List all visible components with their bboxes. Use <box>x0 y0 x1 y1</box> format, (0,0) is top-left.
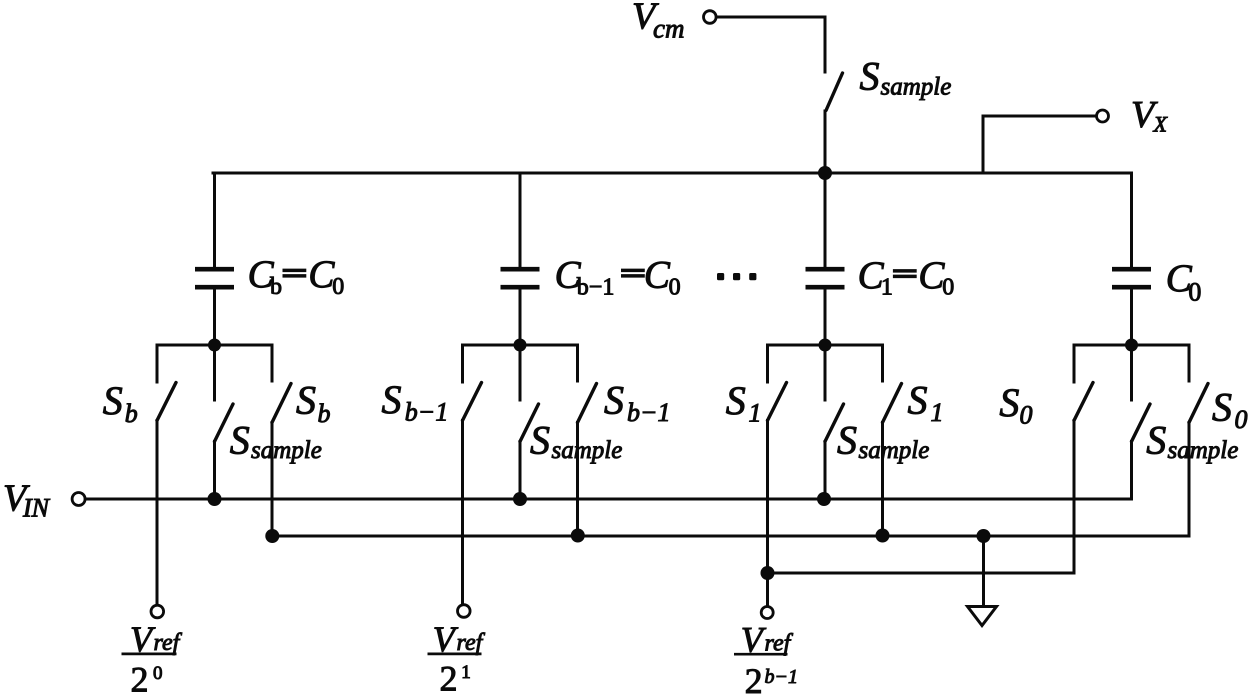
junction Ssample group 1 on VIN rail <box>208 492 222 506</box>
svg-text:1: 1 <box>749 399 762 428</box>
wire switch bar group 3 <box>768 344 883 347</box>
label Vcm <box>632 0 684 44</box>
wire switch bar group 4 <box>1074 344 1189 347</box>
label S0 right <box>1212 385 1248 435</box>
wire right switch group 3 to rail2 <box>881 423 884 537</box>
svg-text:b−1: b−1 <box>765 666 799 688</box>
junction ground tap on rail2 <box>977 529 991 543</box>
label S1 left <box>726 378 762 428</box>
wire switch bar group 1 <box>157 344 272 347</box>
wire capacitor C1 to node <box>213 289 216 345</box>
svg-text:2: 2 <box>745 661 763 699</box>
switch blade left group 4 <box>1074 383 1093 421</box>
label Sb left <box>103 378 138 428</box>
wire switch Ssample group 2 to VIN rail <box>519 442 522 500</box>
node bottom plate group 2 <box>514 339 527 352</box>
svg-text:ref: ref <box>765 631 794 657</box>
terminal Vref/2^1 <box>458 605 471 618</box>
wire rail2 (bit switches) <box>272 535 1189 538</box>
wire Vcm to switch Ssample <box>717 17 826 72</box>
label Vref/2^1 <box>428 619 486 699</box>
svg-text:b−1: b−1 <box>577 275 615 301</box>
svg-text:S: S <box>1212 385 1232 430</box>
label Ssample (top) <box>860 54 952 101</box>
capacitor C2 bottom plate <box>501 285 540 290</box>
switch blade left group 3 <box>768 383 787 421</box>
label C0 <box>1166 257 1202 307</box>
svg-text:0: 0 <box>153 663 163 684</box>
switch blade right group 3 <box>883 384 902 423</box>
capacitor C3 bottom plate <box>806 285 845 290</box>
wire left switch group 1 to Vref terminal <box>156 421 159 605</box>
svg-text:S: S <box>382 377 402 422</box>
wire right switch group 2 to rail2 <box>576 423 579 537</box>
switch blade right group 2 <box>578 384 597 423</box>
svg-text:S: S <box>726 378 746 423</box>
wire top rail to capacitor C4 <box>1130 173 1133 267</box>
svg-text:2: 2 <box>131 660 149 699</box>
svg-text:IN: IN <box>22 494 51 523</box>
label Sb-1 right <box>604 378 671 428</box>
junction group 1 on rail2 <box>265 529 279 543</box>
wire right switch stub group 1 <box>271 345 274 381</box>
svg-text:S: S <box>103 378 123 423</box>
wire Vx stub <box>983 116 1096 173</box>
wire left switch stub group 4 <box>1073 345 1076 382</box>
svg-text:S: S <box>908 378 928 423</box>
wire right switch group 1 to rail2 <box>271 423 274 537</box>
label Ssample group 3 <box>837 418 929 465</box>
svg-text:S: S <box>999 380 1019 425</box>
wire left switch stub group 1 <box>156 345 159 382</box>
capacitor C4 bottom plate <box>1112 285 1151 290</box>
terminal VIN <box>72 493 85 506</box>
svg-text:1: 1 <box>931 398 944 427</box>
wire top plate rail <box>213 172 1132 175</box>
switch Ssample (top) blade <box>826 73 843 111</box>
terminal Vref/2^b-1 <box>761 607 773 619</box>
svg-text:S: S <box>296 378 316 423</box>
wire switch bar group 2 <box>463 344 578 347</box>
label Vref/2^b-1 <box>734 620 798 699</box>
wire middle switch stub group 3 <box>824 345 827 400</box>
capacitor C4 top plate <box>1112 267 1151 272</box>
node bottom plate group 4 <box>1125 339 1138 352</box>
junction Ssample group 3 on VIN rail <box>817 492 831 506</box>
wire top rail to capacitor C3 <box>824 173 827 267</box>
wire left switch stub group 3 <box>766 345 769 382</box>
label Ssample group 2 <box>530 418 622 465</box>
svg-text:0: 0 <box>1235 405 1248 434</box>
switch Ssample blade group 2 <box>520 404 539 442</box>
svg-text:1: 1 <box>461 662 471 683</box>
wire switch Ssample group 3 to VIN rail <box>824 442 827 500</box>
svg-text:0: 0 <box>332 274 344 300</box>
label Cb=C0 <box>248 253 345 300</box>
terminal Vref/2^0 <box>151 605 164 618</box>
svg-text:sample: sample <box>881 74 952 101</box>
svg-text:b−1: b−1 <box>405 398 449 427</box>
svg-text:S: S <box>604 378 624 423</box>
svg-text:S: S <box>837 418 857 463</box>
svg-text:b−1: b−1 <box>627 398 671 427</box>
wire left switch group 2 to Vref terminal <box>461 421 464 605</box>
switch Ssample blade group 1 <box>215 404 234 442</box>
junction group 2 on rail2 <box>571 529 585 543</box>
wire top rail to capacitor C1 <box>213 173 216 267</box>
label Cb-1=C0 <box>555 254 681 301</box>
node bottom plate group 3 <box>819 339 832 352</box>
svg-text:sample: sample <box>859 437 930 464</box>
label Sb-1 left <box>382 377 449 427</box>
svg-text:X: X <box>1153 112 1169 137</box>
wire capacitor C4 to node <box>1130 289 1133 345</box>
capacitor C1 top plate <box>195 267 234 272</box>
junction node on top rail <box>818 166 832 180</box>
ground <box>968 607 997 626</box>
svg-text:0: 0 <box>942 275 954 301</box>
node bottom plate group 1 <box>208 339 221 352</box>
wire middle switch stub group 2 <box>519 345 522 400</box>
svg-text:0: 0 <box>1188 278 1201 307</box>
switch Ssample blade group 3 <box>825 404 844 442</box>
svg-text:S: S <box>860 54 880 99</box>
ellipsis dots <box>717 273 756 280</box>
label Sb right <box>296 378 331 429</box>
switch blade right group 4 <box>1189 384 1208 423</box>
wire capacitor C2 to node <box>519 289 522 345</box>
svg-text:0: 0 <box>669 275 681 301</box>
label Vref/2^0 <box>122 619 183 699</box>
wire switch Ssample group 1 to VIN rail <box>213 442 216 500</box>
label C1=C0 <box>858 254 955 301</box>
wire switch Ssample to top plate node <box>824 111 827 173</box>
junction group 3 on rail3 <box>761 566 775 580</box>
label S1 right <box>908 378 944 428</box>
svg-text:b: b <box>270 274 282 300</box>
switch blade left group 1 <box>157 383 176 421</box>
svg-text:S: S <box>230 418 250 463</box>
svg-text:ref: ref <box>457 630 486 656</box>
wire VIN rail <box>85 498 1131 501</box>
wire left switch group 4 to rail3 <box>1073 421 1076 574</box>
svg-text:1: 1 <box>881 275 893 301</box>
svg-text:b: b <box>125 399 138 428</box>
svg-text:S: S <box>1146 418 1166 463</box>
svg-text:b: b <box>318 399 331 428</box>
wire left switch stub group 2 <box>461 345 464 382</box>
junction group 3 on rail2 <box>876 529 890 543</box>
wire rail3 (Vref b-1) <box>768 572 1075 575</box>
wire switch Ssample group 4 to VIN rail <box>1130 442 1133 500</box>
label S0 left <box>999 380 1032 430</box>
wire right switch stub group 2 <box>576 345 579 381</box>
svg-text:sample: sample <box>1168 437 1239 464</box>
svg-text:C: C <box>644 254 671 297</box>
label Vx <box>1131 94 1169 137</box>
wire middle switch stub group 4 <box>1130 345 1133 400</box>
svg-text:cm: cm <box>653 14 684 44</box>
wire right switch stub group 3 <box>881 345 884 381</box>
svg-text:2: 2 <box>440 659 458 699</box>
label VIN <box>3 478 51 523</box>
wire right switch group 4 to rail2 <box>1188 423 1191 537</box>
svg-text:sample: sample <box>251 437 322 464</box>
switch blade left group 2 <box>463 383 482 421</box>
svg-text:ref: ref <box>154 630 183 656</box>
capacitor C1 bottom plate <box>195 285 234 290</box>
label Ssample group 1 <box>230 418 322 465</box>
svg-text:S: S <box>530 418 550 463</box>
wire capacitor C3 to node <box>824 289 827 345</box>
terminal Vcm <box>704 11 717 24</box>
capacitor C2 top plate <box>501 267 540 272</box>
wire left switch group 3 to Vref terminal <box>766 421 769 606</box>
svg-text:sample: sample <box>552 437 623 464</box>
wire top rail to capacitor C2 <box>519 173 522 267</box>
wire middle switch stub group 1 <box>213 345 216 400</box>
junction Ssample group 2 on VIN rail <box>513 492 527 506</box>
terminal Vx <box>1097 110 1109 122</box>
switch blade right group 1 <box>272 384 291 423</box>
label Ssample group 4 <box>1146 418 1238 465</box>
switch Ssample blade group 4 <box>1132 404 1151 442</box>
wire right switch stub group 4 <box>1188 345 1191 381</box>
svg-text:0: 0 <box>1020 401 1033 430</box>
capacitor C3 top plate <box>806 267 845 272</box>
wire ground tap <box>982 536 985 606</box>
